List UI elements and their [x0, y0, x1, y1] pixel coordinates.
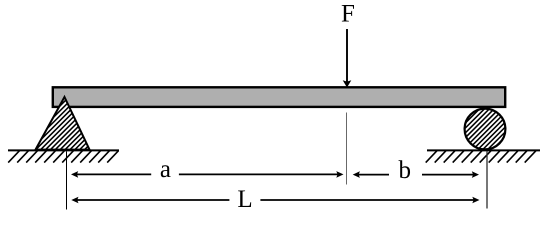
svg-text:b: b — [399, 157, 412, 184]
svg-text:a: a — [160, 156, 171, 183]
svg-text:F: F — [341, 1, 355, 28]
svg-text:L: L — [237, 186, 252, 213]
